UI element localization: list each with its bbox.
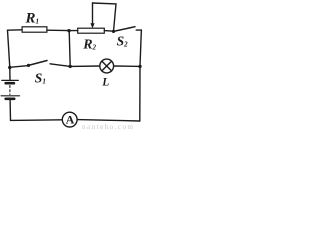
svg-text:L: L: [101, 77, 109, 89]
svg-text:S2: S2: [117, 33, 129, 48]
wire node B to lamp: [70, 65, 100, 67]
svg-text:R2: R2: [82, 38, 96, 53]
wire left side upper: [8, 30, 10, 67]
node A (junction dot top): [67, 29, 70, 32]
wire node A down to node B: [69, 31, 70, 67]
wire ammeter to bottom-right: [77, 120, 140, 121]
wire lamp to node C: [114, 65, 140, 67]
battery wire upper: [9, 68, 11, 81]
wire node A to R2: [69, 30, 78, 32]
node C (junction dot right): [138, 65, 141, 68]
lamp L: [100, 59, 114, 73]
wire right side down: [140, 30, 142, 121]
wire node D to S1: [10, 66, 29, 68]
switch S2 right terminal: [136, 29, 141, 31]
svg-text:S1: S1: [35, 70, 46, 85]
svg-text:A: A: [66, 113, 75, 127]
wire slider bracket to S2: [93, 3, 117, 31]
node D (junction dot left): [8, 66, 11, 69]
battery cell 2 negative plate: [6, 98, 15, 101]
ammeter A: [62, 112, 77, 127]
switch S2 pivot dot: [112, 30, 115, 33]
svg-text:nanteho.com: nanteho.com: [82, 123, 134, 131]
switch S1 pivot dot: [27, 64, 30, 67]
node B (junction dot middle): [69, 65, 72, 68]
switch S1 right terminal wire to node B: [50, 64, 70, 67]
resistor R1: [22, 27, 47, 32]
battery dashed link: [9, 86, 11, 95]
battery cell 1 negative plate: [6, 82, 14, 85]
rheostat R2 body: [78, 28, 105, 33]
switch S2 blade: [114, 27, 136, 32]
switch S1 blade: [29, 61, 48, 66]
wire R1 to node A: [47, 29, 69, 31]
rheostat R2 slider arrow: [90, 3, 94, 28]
wire bottom-left to ammeter: [11, 119, 63, 122]
wire R2 to S2: [104, 30, 113, 33]
svg-text:R1: R1: [25, 11, 40, 27]
battery cell 2 positive plate: [1, 95, 19, 97]
battery cell 1 positive plate: [2, 79, 19, 81]
wire top-left segment: [8, 29, 23, 31]
battery wire lower: [9, 100, 11, 121]
